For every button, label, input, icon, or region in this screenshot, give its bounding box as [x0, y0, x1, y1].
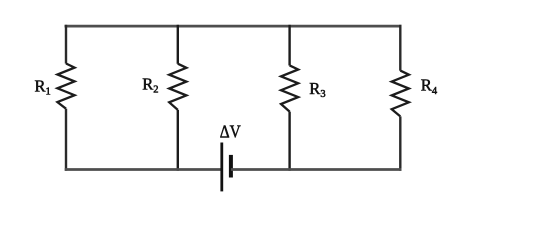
- svg-text:ΔV: ΔV: [220, 121, 241, 141]
- wire R2 branch top lead: [177, 25, 179, 64]
- resistor R4: [392, 71, 409, 117]
- wire left branch bottom lead (R1 to bottom bus): [65, 109, 67, 171]
- wire right branch top lead (to R4): [399, 25, 401, 71]
- svg-text:R3: R3: [309, 79, 325, 100]
- svg-text:R4: R4: [421, 76, 438, 97]
- resistor R2: [169, 64, 186, 110]
- wire left branch top lead (node A to R1): [65, 25, 67, 64]
- wire R2 branch bottom lead: [177, 110, 179, 171]
- wire bottom bus left segment: [65, 168, 221, 171]
- battery ΔV positive plate (long): [220, 143, 223, 192]
- wire top bus: [65, 25, 402, 28]
- wire R3 branch bottom lead: [288, 112, 290, 171]
- resistor R1: [57, 64, 74, 109]
- wire R3 branch top lead: [288, 25, 290, 66]
- battery ΔV negative plate (short thick): [229, 155, 233, 178]
- svg-text:R2: R2: [142, 75, 158, 96]
- svg-text:R1: R1: [35, 76, 51, 97]
- wire bottom bus right segment: [231, 168, 402, 171]
- resistor R3: [281, 65, 298, 111]
- wire right branch bottom lead (R4 to bottom bus): [399, 116, 401, 170]
